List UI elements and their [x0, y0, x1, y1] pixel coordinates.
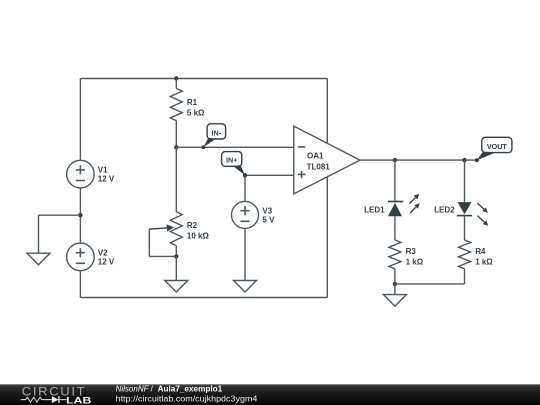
svg-text:IN-: IN- — [212, 128, 222, 137]
svg-text:R3: R3 — [406, 247, 417, 256]
svg-text:R1: R1 — [187, 98, 198, 107]
svg-text:LED2: LED2 — [434, 205, 455, 214]
svg-text:V2: V2 — [98, 248, 108, 257]
svg-text:1 kΩ: 1 kΩ — [406, 258, 424, 267]
svg-text:VOUT: VOUT — [487, 142, 508, 151]
svg-text:LAB: LAB — [66, 394, 91, 405]
svg-text:1 kΩ: 1 kΩ — [475, 258, 493, 267]
svg-text:OA1: OA1 — [307, 152, 324, 161]
svg-text:R4: R4 — [475, 247, 486, 256]
svg-text:Aula7_exemplo1: Aula7_exemplo1 — [158, 385, 223, 394]
svg-text:5 kΩ: 5 kΩ — [187, 109, 205, 118]
svg-text:12 V: 12 V — [98, 175, 115, 184]
svg-text:12 V: 12 V — [98, 257, 115, 266]
svg-text:5 V: 5 V — [262, 215, 275, 224]
svg-text:IN+: IN+ — [226, 156, 237, 165]
svg-text:V3: V3 — [262, 206, 272, 215]
svg-text:LED1: LED1 — [364, 205, 385, 214]
svg-text:V1: V1 — [98, 165, 108, 174]
svg-text:NilsonNF: NilsonNF — [116, 385, 150, 394]
svg-text:R2: R2 — [187, 221, 198, 230]
svg-text:http://circuitlab.com/cujkhpdc: http://circuitlab.com/cujkhpdc3ygm4 — [116, 394, 258, 403]
svg-text:10 kΩ: 10 kΩ — [187, 232, 210, 241]
svg-text:TL081: TL081 — [307, 162, 331, 171]
